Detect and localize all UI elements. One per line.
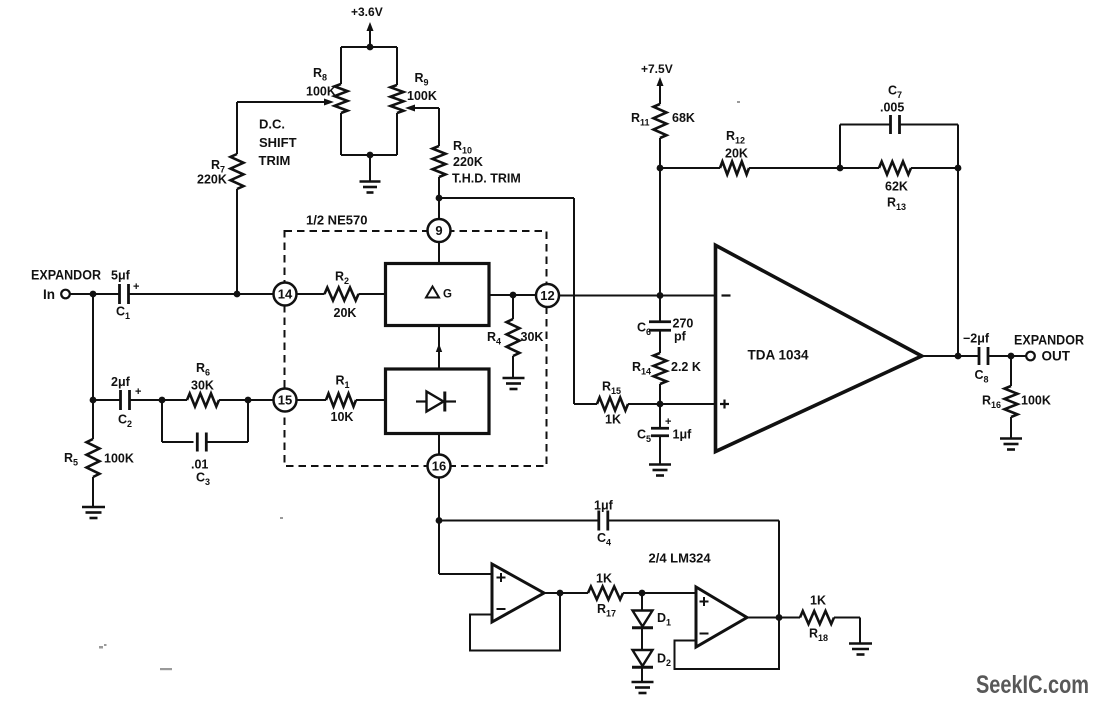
node top of trim loop [367, 44, 374, 51]
wire rectifier to pin 16 [438, 434, 440, 455]
svg-text:pf: pf [674, 330, 687, 344]
wire R18 to ground [834, 618, 860, 644]
wire THD feedback horizontal [439, 197, 574, 199]
label R1 value 10K [331, 410, 354, 424]
wire D2 to ground [641, 669, 643, 682]
wire gain box to rectifier with arrow [436, 326, 442, 370]
resistor R14 [654, 353, 667, 384]
ground R4 [503, 356, 525, 389]
wire op amp output [922, 355, 979, 357]
capacitor C4 [599, 511, 608, 531]
potentiometer R8 [335, 84, 348, 113]
wire pin16 node down to op amp A [439, 521, 492, 575]
svg-text:.005: .005 [880, 101, 904, 115]
resistor R13 [879, 162, 911, 175]
label C7 value .005 [880, 101, 904, 115]
wire R9 branch bottom [396, 113, 398, 155]
label C8 [975, 368, 989, 385]
wire loop bottom [341, 154, 397, 156]
op-amp U3a body [492, 564, 544, 622]
capacitor C6 [649, 322, 671, 331]
label R11 [631, 111, 650, 128]
wire input node down [92, 294, 94, 400]
svg-text:R2: R2 [335, 270, 349, 287]
label C1 value 5μf [111, 269, 131, 283]
watermark SeekIC.com [976, 671, 1089, 699]
label D2 [657, 652, 671, 669]
wire pin 12 to op amp inverting input [559, 295, 716, 297]
svg-text:R9: R9 [415, 71, 429, 88]
svg-text:+3.6V: +3.6V [351, 5, 383, 19]
power +3.6V arrow [367, 22, 374, 47]
power +7.5V arrow [657, 77, 664, 104]
node THD feedback [436, 195, 443, 202]
svg-text:D1: D1 [657, 611, 671, 628]
wire C3 left [162, 400, 194, 442]
svg-text:12: 12 [540, 288, 554, 303]
svg-text:30K: 30K [191, 379, 214, 393]
wire node to pin 9 [438, 198, 440, 219]
label R7 [211, 158, 225, 175]
svg-text:C3: C3 [196, 471, 210, 488]
svg-text:R5: R5 [64, 451, 78, 468]
label R10 [453, 139, 472, 156]
pin 14 [274, 283, 297, 306]
svg-text:R6: R6 [196, 361, 210, 378]
node diode junction [639, 590, 646, 597]
wire pin15 to R1 [297, 399, 327, 401]
op-amp U2 label [748, 348, 810, 363]
svg-text:220K: 220K [197, 173, 227, 187]
label R9 [415, 71, 429, 88]
label C5 [637, 428, 651, 445]
wire node to op amp noninverting input [660, 403, 716, 405]
svg-text:68K: 68K [672, 111, 695, 125]
svg-text:+: + [665, 416, 671, 428]
svg-text:EXPANDOR: EXPANDOR [31, 268, 101, 283]
wire gain box output [489, 294, 536, 296]
wire R12 to node [749, 167, 840, 169]
wire pin 9 to gain box [438, 242, 440, 264]
label R8 [313, 66, 327, 83]
label R17 [597, 602, 616, 619]
label R13 value 62K [885, 180, 908, 194]
wire R17 to op amp B [623, 592, 696, 594]
node pin16 junction [436, 517, 443, 524]
label R10 value 220K [453, 155, 483, 169]
diode D2 [632, 650, 653, 667]
op-amp U3b feedback loop [675, 618, 780, 670]
wire C8 to output terminal [988, 355, 1027, 357]
svg-text:R17: R17 [597, 602, 616, 619]
rectifier cell box [386, 369, 490, 434]
svg-text:SeekIC.com: SeekIC.com [976, 671, 1089, 699]
svg-text:G: G [443, 289, 452, 301]
capacitor C3 [197, 433, 206, 452]
op-amp U2 noninverting mark [720, 400, 729, 409]
node R6 left [159, 397, 166, 404]
label R12 value 20K [725, 147, 748, 161]
svg-text:10K: 10K [331, 410, 354, 424]
wire C1 to pin 14 [129, 293, 274, 295]
svg-text:+: + [135, 386, 141, 398]
wire right riser down [778, 521, 780, 618]
label C2 plus [135, 386, 141, 398]
svg-text:R1: R1 [336, 374, 350, 391]
ground trim loop [360, 155, 381, 193]
label C2 [118, 413, 132, 430]
terminal input [61, 290, 70, 299]
gain cell delta-G symbol [426, 287, 452, 301]
wire to R15 [574, 403, 597, 405]
label C1 plus [133, 281, 139, 293]
resistor R11 [654, 104, 667, 138]
capacitor C1 [120, 284, 129, 304]
svg-text:.01: .01 [191, 458, 208, 472]
wire R6 to pin 15 [219, 399, 274, 401]
node noninverting input [657, 401, 664, 408]
label R2 value 20K [334, 306, 357, 320]
power +7.5V supply label [641, 62, 673, 76]
label R14 [632, 360, 651, 377]
rectifier diode symbol [416, 392, 456, 412]
svg-text:EXPANDOR: EXPANDOR [1014, 333, 1084, 348]
node R16 top [1008, 353, 1015, 360]
wire R14 bottom [659, 384, 661, 404]
label R11 value 68K [672, 111, 695, 125]
svg-text:+7.5V: +7.5V [641, 62, 673, 76]
wire R13 to node [911, 167, 958, 169]
capacitor C5 [651, 428, 669, 436]
label C4 [597, 531, 611, 548]
svg-text:C5: C5 [637, 428, 651, 445]
label R8 value 100K [306, 85, 336, 99]
svg-text:TRIM: TRIM [259, 153, 291, 168]
pin 16 [428, 455, 451, 478]
label C6 [637, 321, 651, 338]
resistor R7 [231, 154, 244, 189]
wire R7 top horizontal to R8 wiper [237, 99, 334, 106]
wire node to R13 [840, 167, 879, 169]
resistor R4 [507, 295, 520, 356]
svg-text:20K: 20K [725, 147, 748, 161]
svg-text:2.2 K: 2.2 K [671, 360, 701, 374]
op-amp U2 inverting mark [722, 294, 731, 296]
wire C3 right [206, 400, 248, 442]
terminal output [1026, 352, 1035, 361]
node R13 right [955, 165, 962, 172]
op-amp U3b noninverting mark [700, 597, 709, 606]
svg-text:C4: C4 [597, 531, 611, 548]
svg-text:In: In [43, 287, 55, 302]
label R5 value 100K [104, 452, 134, 466]
label R6 value 30K [191, 379, 214, 393]
svg-text:SHIFT: SHIFT [259, 135, 297, 150]
label R7 value 220K [197, 173, 227, 187]
svg-text:1K: 1K [596, 572, 612, 586]
wire C4 to right riser [608, 520, 779, 522]
wire D1 to D2 [641, 629, 643, 650]
op-amp U3a feedback loop [470, 593, 560, 651]
ground C5 [649, 465, 671, 476]
op-amp U3a noninverting mark [497, 573, 506, 582]
capacitor C7 [891, 115, 900, 134]
label C3 value .01 [191, 458, 208, 472]
resistor R6 [187, 394, 219, 407]
wire node to C2 [93, 399, 121, 401]
pin 12 [536, 284, 559, 307]
svg-text:R14: R14 [632, 360, 651, 377]
svg-text:C8: C8 [975, 368, 989, 385]
wire C5 top [659, 404, 661, 429]
label EXPANDOR In [31, 268, 101, 303]
wire feedback down to output [957, 168, 959, 356]
label R13 [887, 196, 906, 213]
wire R10 bottom [438, 177, 440, 198]
svg-text:R11: R11 [631, 111, 650, 128]
wire C6 top [659, 296, 661, 323]
wire C5 to ground [659, 436, 661, 464]
svg-text:20K: 20K [334, 306, 357, 320]
svg-text:C7: C7 [888, 84, 902, 101]
label R18 [809, 627, 828, 644]
label R16 value 100K [1021, 394, 1051, 408]
label R1 [336, 374, 350, 391]
op-amp U3b body [696, 587, 747, 647]
svg-text:62K: 62K [885, 180, 908, 194]
label C8 value -2μf [963, 332, 990, 346]
label C3 [196, 471, 210, 488]
label R15 [602, 380, 621, 397]
label R16 [982, 394, 1001, 411]
svg-text:1K: 1K [810, 594, 826, 608]
capacitor C8 [979, 347, 988, 365]
diode D1 [632, 611, 653, 628]
pin 15 [274, 389, 297, 412]
node op amp B output [776, 614, 783, 621]
resistor R16 [1005, 356, 1018, 417]
resistor R18 [800, 611, 834, 624]
ground R5 [82, 477, 105, 518]
op-amp U2 TDA 1034 body [716, 245, 922, 451]
svg-text:D2: D2 [657, 652, 671, 669]
svg-text:270: 270 [673, 317, 694, 331]
wire C7 right riser [900, 125, 959, 169]
node R7 junction [234, 291, 241, 298]
node R6 right [245, 397, 252, 404]
svg-text:2μf: 2μf [111, 375, 131, 389]
wire THD feedback vertical [573, 198, 575, 404]
label 2/4 LM324 [649, 551, 712, 566]
resistor R15 [597, 398, 628, 411]
svg-text:C1: C1 [116, 305, 130, 322]
capacitor C2 [121, 390, 130, 410]
svg-text:D.C.: D.C. [259, 117, 285, 132]
svg-text:R15: R15 [602, 380, 621, 397]
svg-text:100K: 100K [104, 452, 134, 466]
svg-text:16: 16 [432, 459, 446, 474]
svg-text:R4: R4 [487, 330, 501, 347]
svg-text:R10: R10 [453, 139, 472, 156]
resistor R12 [720, 162, 749, 175]
label 1/2 NE570 [306, 213, 367, 228]
label C4 value 1μf [594, 499, 614, 513]
svg-text:14: 14 [278, 287, 293, 302]
svg-text:220K: 220K [453, 155, 483, 169]
op-amp U3a inverting mark [497, 608, 506, 610]
label C7 [888, 84, 902, 101]
wire op amp B output [747, 617, 800, 619]
op-amp U3b inverting mark [700, 633, 709, 635]
node input [90, 291, 97, 298]
node C2 input [90, 397, 97, 404]
svg-text:R12: R12 [726, 129, 745, 146]
pin 9 [428, 219, 451, 242]
svg-text:−2μf: −2μf [963, 332, 990, 346]
node R4 junction [510, 292, 517, 299]
ground R16 [1000, 417, 1022, 450]
wire C7 left riser [840, 125, 891, 169]
label R2 [335, 270, 349, 287]
label T.H.D. TRIM [452, 172, 521, 186]
node op amp A output [557, 590, 564, 597]
svg-text:T.H.D. TRIM: T.H.D. TRIM [452, 172, 521, 186]
svg-text:R18: R18 [809, 627, 828, 644]
wire R8 branch top [340, 47, 342, 84]
resistor R10 [433, 146, 446, 177]
node R11 feedback [657, 165, 664, 172]
label R15 value 1K [605, 413, 621, 427]
potentiometer R9 [391, 85, 404, 113]
node bottom of trim loop [367, 152, 374, 159]
node feedback output [955, 353, 962, 360]
wire pin14 to R2 [297, 293, 325, 295]
label R6 [196, 361, 210, 378]
svg-text:1μf: 1μf [594, 499, 614, 513]
wire C6 to R14 [659, 330, 661, 353]
resistor R1 [326, 394, 356, 407]
wire R7 lower [236, 189, 238, 294]
resistor R2 [325, 288, 359, 301]
wire loop top [341, 46, 397, 48]
label C5 value 1μf [673, 428, 693, 442]
svg-text:1/2 NE570: 1/2 NE570 [306, 213, 367, 228]
wire R7 upper [236, 102, 238, 154]
svg-text:15: 15 [278, 393, 292, 408]
svg-text:1K: 1K [605, 413, 621, 427]
wire R11 node down to inverting input [659, 168, 661, 296]
label R12 [726, 129, 745, 146]
wire C2 to R6 [130, 399, 188, 401]
ground D2 [632, 682, 654, 693]
gain cell box [386, 264, 490, 326]
wire R9 branch top [396, 47, 398, 85]
label R4 value 30K [521, 330, 544, 344]
svg-text:9: 9 [435, 223, 442, 238]
wire node to R12 [660, 167, 720, 169]
svg-text:2/4 LM324: 2/4 LM324 [649, 551, 712, 566]
svg-text:5μf: 5μf [111, 269, 131, 283]
svg-text:100K: 100K [1021, 394, 1051, 408]
resistor R5 [87, 400, 100, 477]
label EXPANDOR OUT [1014, 333, 1084, 364]
svg-text:100K: 100K [306, 85, 336, 99]
svg-text:1μf: 1μf [673, 428, 693, 442]
svg-text:R13: R13 [887, 196, 906, 213]
label D.C. SHIFT TRIM [259, 117, 297, 169]
label C6 value 270pf [673, 317, 694, 344]
label R9 value 100K [407, 89, 437, 103]
wire R15 to node [628, 403, 660, 405]
svg-text:C2: C2 [118, 413, 132, 430]
speck artifacts [99, 101, 740, 670]
svg-text:R16: R16 [982, 394, 1001, 411]
label R17 value 1K [596, 572, 612, 586]
power +3.6V supply label [351, 5, 383, 19]
wire node to D1 [641, 593, 643, 611]
svg-text:+: + [133, 281, 139, 293]
label C2 value 2μf [111, 375, 131, 389]
wire R8 branch bottom [340, 113, 342, 155]
wire R1 to diode box [356, 399, 386, 401]
wire input to C1 [70, 293, 120, 295]
label R5 [64, 451, 78, 468]
ground R18 [849, 644, 872, 655]
svg-text:100K: 100K [407, 89, 437, 103]
label R18 value 1K [810, 594, 826, 608]
wire R10 top to R9 wiper [405, 105, 439, 147]
svg-text:30K: 30K [521, 330, 544, 344]
wire pin 16 down [438, 478, 440, 521]
node R13 left [837, 165, 844, 172]
wire R11 bottom [659, 138, 661, 168]
resistor R17 [588, 587, 623, 600]
label D1 [657, 611, 671, 628]
label C5 plus [665, 416, 671, 428]
label R14 value 2.2K [671, 360, 701, 374]
wire R2 to gain box [359, 293, 386, 295]
wire op amp A output [544, 592, 588, 594]
svg-text:C6: C6 [637, 321, 651, 338]
svg-text:TDA 1034: TDA 1034 [748, 348, 810, 363]
node C6 top [657, 292, 664, 299]
label R4 [487, 330, 501, 347]
label C1 [116, 305, 130, 322]
wire pin16 node to C4 [439, 520, 599, 522]
NE570 dashed outline [285, 231, 547, 466]
svg-text:R8: R8 [313, 66, 327, 83]
svg-text:OUT: OUT [1042, 349, 1071, 364]
